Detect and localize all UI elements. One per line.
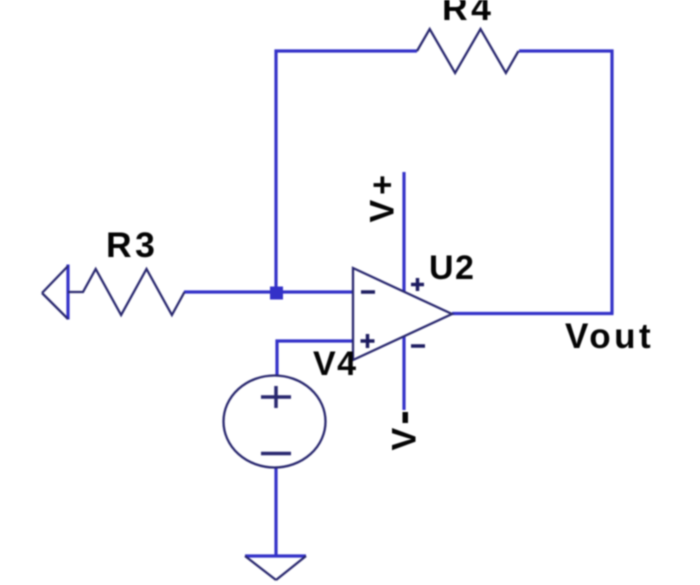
svg-text:V4: V4 <box>313 345 358 383</box>
wire: V- power pin <box>402 336 405 410</box>
ground <box>245 556 306 580</box>
resistor R3 <box>68 269 185 315</box>
wire: feedback top-right segment <box>519 51 612 314</box>
voltage source V4 <box>224 376 326 468</box>
svg-text:V: V <box>386 428 424 451</box>
svg-text:U2: U2 <box>429 249 475 287</box>
junction at inverting node <box>270 287 283 300</box>
op-amp U2 <box>353 268 452 360</box>
wire: V+ power pin <box>402 172 405 292</box>
wire: feedback top-left segment <box>276 51 417 292</box>
wire: op-amp output to Vout <box>452 312 614 315</box>
wire: inverting input row <box>184 290 353 293</box>
svg-text:V+: V+ <box>364 170 402 223</box>
port flag (input arrow) <box>42 265 68 320</box>
wire: V4 minus to ground <box>274 467 277 556</box>
wire: non-inverting input from V4 <box>277 341 353 376</box>
resistor R4 <box>417 29 519 73</box>
svg-text:R3: R3 <box>106 225 158 265</box>
svg-text:R4: R4 <box>442 0 494 28</box>
svg-text:Vout: Vout <box>565 317 654 356</box>
